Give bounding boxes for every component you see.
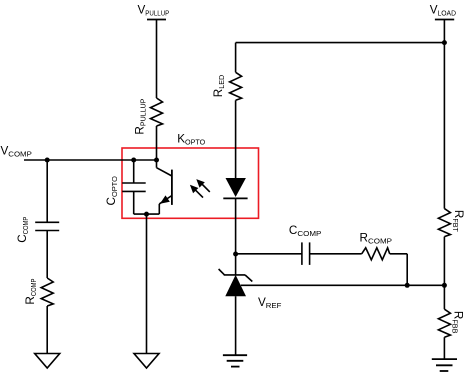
wire R_LED to LED anode: [235, 100, 237, 178]
optocoupler boundary box K_OPTO: [122, 148, 259, 218]
ground (3-bar, under V_REF): [223, 354, 247, 356]
resistor R_FBB: [438, 309, 450, 337]
ground (3-bar, bottom right): [432, 358, 457, 360]
node LED/compensation junction: [233, 252, 238, 257]
wire R_FBT to feedback node: [443, 237, 445, 310]
wire C_COMP to R_COMP: [46, 231, 48, 279]
wire junction to C_COMP: [46, 160, 48, 222]
wire corner down to R_LED: [235, 43, 237, 73]
light arrow 2: [194, 189, 203, 198]
shunt reference V_REF triangle: [225, 275, 246, 296]
wire C_OPTO to emitter rail: [133, 191, 135, 214]
wire emitter bottom rail: [134, 213, 160, 215]
wire junction to C_OPTO: [133, 160, 135, 183]
capacitor C_COMP (series): [301, 242, 303, 265]
ground (open triangle, opto emitter): [134, 354, 159, 369]
wire LED cathode down to V_REF: [235, 198, 237, 275]
wire V_REF anode to ground: [235, 296, 237, 355]
wire corner down to feedback line: [406, 254, 408, 285]
wire emitter junction to ground: [146, 214, 148, 353]
transistor Q1 emitter arrow: [161, 196, 169, 203]
transistor Q1 body bar: [171, 170, 173, 205]
wire junction to C_COMP (top): [236, 253, 302, 255]
node Vcomp / Ccomp junction: [45, 158, 50, 163]
diode D1 cathode bar: [223, 197, 247, 199]
power V_LOAD bar: [435, 19, 454, 21]
shunt reference V_REF cathode bar: [224, 274, 245, 276]
resistor R_COMP (series): [362, 248, 390, 260]
node R_PULLUP/collector junction: [154, 158, 159, 163]
wire V_PULLUP bar to R_PULLUP: [156, 20, 158, 99]
wire R_COMP to corner: [390, 253, 408, 255]
shunt reference V_REF right tick: [245, 275, 252, 282]
resistor R_LED: [230, 72, 242, 100]
capacitor C_OPTO: [122, 182, 146, 184]
light arrow 1: [201, 183, 210, 192]
diode D1 LED triangle: [226, 178, 246, 197]
wire R_COMP to ground: [46, 306, 48, 354]
node R_COMP/feedback junction: [405, 283, 410, 288]
resistor R_PULLUP: [151, 98, 163, 126]
transistor Q1 phototransistor collector lead: [156, 160, 158, 168]
node V_LOAD / top rail junction: [442, 40, 447, 45]
wire feedback line V_REF to divider: [241, 284, 445, 286]
wire V_LOAD down right side: [443, 20, 445, 209]
node C_OPTO junction: [131, 158, 136, 163]
shunt reference V_REF left tick: [219, 269, 225, 275]
wire V_COMP rail: [24, 159, 157, 161]
resistor R_COMP (left): [41, 278, 53, 306]
resistor R_FBT: [438, 209, 450, 237]
wire top rail to R_LED: [236, 42, 445, 44]
node feedback divider junction: [442, 283, 447, 288]
capacitor C_COMP (left): [35, 221, 59, 223]
power V_PULLUP bar: [147, 19, 166, 21]
wire C_COMP to R_COMP (series): [310, 253, 362, 255]
wire R_FBB to ground: [443, 337, 445, 359]
node emitter/ground junction: [144, 212, 149, 217]
ground (open triangle, left): [35, 354, 60, 369]
wire R_PULLUP to Vcomp rail: [156, 126, 158, 160]
transistor Q1 emitter lead: [159, 196, 172, 204]
